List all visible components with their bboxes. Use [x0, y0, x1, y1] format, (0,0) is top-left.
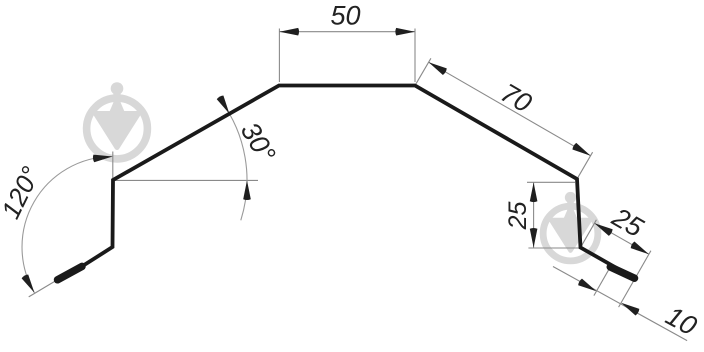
label 10 — [661, 301, 702, 342]
extension line: 25 diagonal near vertex — [582, 220, 597, 246]
label 25 vertical — [504, 202, 532, 231]
arrow 120deg bottom — [21, 274, 37, 295]
label 70 — [496, 78, 537, 119]
dimension line: 50 — [279, 31, 415, 33]
profile polyline (metal flashing cross-section) — [57, 86, 635, 281]
arc: 30 degree — [220, 99, 247, 220]
arc: 120 degree — [22, 157, 112, 293]
extension line: 50 right — [414, 29, 416, 83]
arrow 50 right — [395, 28, 415, 36]
arrow 50 left — [279, 28, 299, 36]
arrow 70 upper — [427, 59, 448, 75]
arrow 120deg top — [93, 153, 113, 163]
extension line: 120 degree vertical — [112, 152, 114, 179]
label 120deg — [0, 162, 46, 223]
extension line: 10 at hem start — [594, 269, 609, 296]
svg-text:50: 50 — [330, 1, 360, 31]
hem left (doubled edge) — [58, 266, 83, 279]
hem right (doubled edge) — [610, 267, 634, 278]
svg-text:70: 70 — [496, 78, 537, 119]
arrow 10 left (outside, pointing down-right) — [577, 278, 598, 294]
svg-text:25: 25 — [504, 202, 532, 231]
extension line: through leg end (shared by 25 and 10 dims) — [619, 251, 651, 307]
arrow 25d upper — [593, 220, 614, 236]
arrow 10 right (outside, pointing up-left) — [619, 300, 640, 316]
reference line: 30 degree horizontal — [114, 179, 258, 181]
extension line: 120 degree lower-left — [29, 280, 57, 297]
svg-text:25: 25 — [606, 201, 649, 243]
extension line: 70 lower — [578, 152, 593, 177]
label 30deg — [235, 117, 282, 168]
extension line: 25 vertical top — [527, 181, 575, 183]
watermark logo 2 (trowel in circle, lower-right) — [543, 192, 598, 261]
dimension line: 70 — [429, 62, 591, 156]
extension line: 25 vertical bottom — [528, 247, 579, 249]
arrow 30deg on horizontal — [243, 180, 251, 200]
arrow 25v top — [530, 183, 538, 203]
dimension line: 25 vertical — [533, 183, 535, 248]
svg-text:30°: 30° — [235, 117, 282, 168]
svg-text:120°: 120° — [0, 162, 46, 223]
dimension line: 25 diagonal — [594, 223, 649, 254]
watermark logo 1 (trowel in circle, upper-left) — [87, 82, 148, 159]
extension line: 50 left — [278, 29, 280, 83]
arrow 25d lower — [630, 241, 651, 257]
arrow 30deg on slope — [216, 95, 232, 116]
label 25 diagonal — [606, 201, 649, 243]
svg-text:10: 10 — [661, 301, 702, 342]
arrow 25v bottom — [530, 228, 538, 248]
extension line: 70 upper — [416, 58, 431, 84]
arrow 70 lower — [572, 143, 593, 159]
dimension line: 10 — [553, 267, 687, 341]
